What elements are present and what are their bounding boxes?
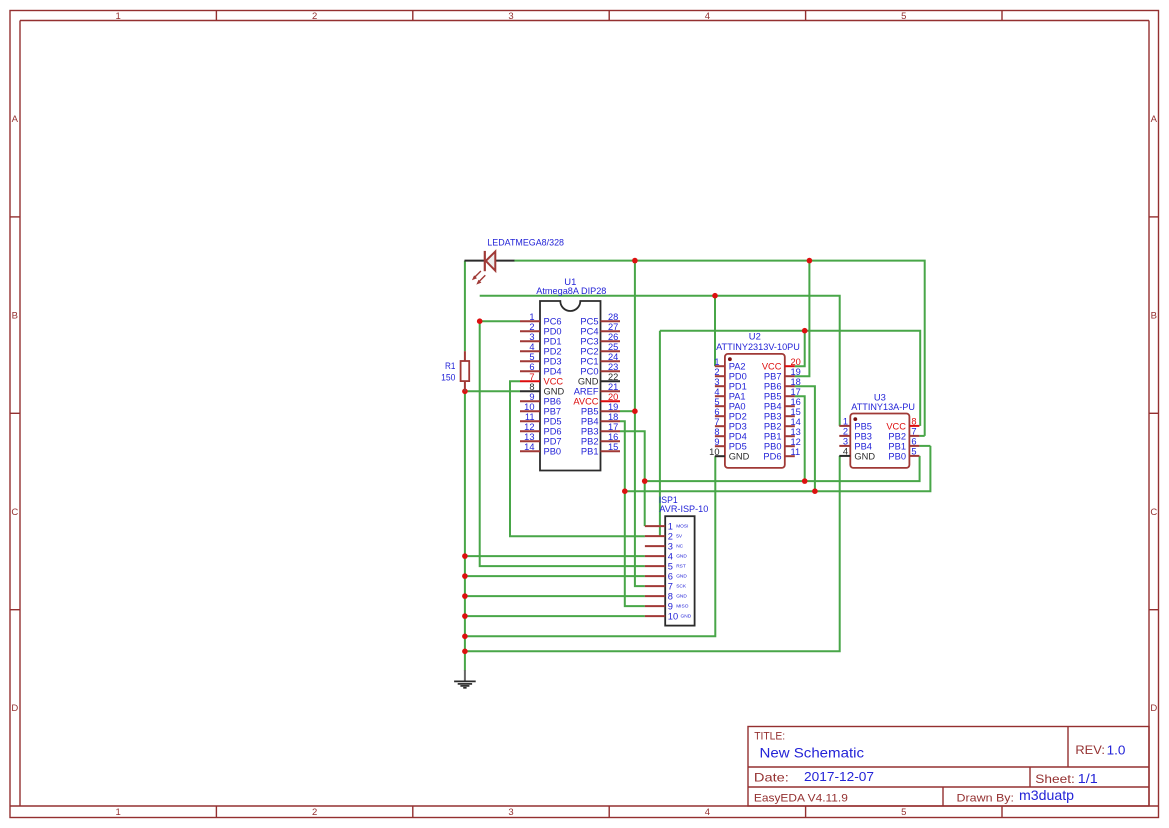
svg-text:TITLE:: TITLE: <box>754 730 785 742</box>
svg-text:A: A <box>1151 114 1158 125</box>
pin 12 (PB0) <box>764 437 801 452</box>
pin 19 (PB5) <box>581 402 620 417</box>
pin 15 (PB3) <box>764 407 801 422</box>
pin 9 (PD5) <box>714 437 746 452</box>
svg-text:PA2: PA2 <box>729 362 746 372</box>
junction <box>462 634 468 640</box>
svg-text:PC6: PC6 <box>544 317 562 327</box>
svg-text:12: 12 <box>524 422 534 432</box>
pin 8 (GND) <box>520 382 564 397</box>
svg-text:PD0: PD0 <box>729 372 747 382</box>
svg-text:GND: GND <box>676 593 687 599</box>
svg-text:8: 8 <box>529 382 534 392</box>
svg-text:PD3: PD3 <box>729 422 747 432</box>
svg-text:1: 1 <box>714 357 719 367</box>
svg-text:MISO: MISO <box>676 603 689 609</box>
svg-text:1: 1 <box>116 11 121 22</box>
wire U3 pin7 stub to top rail <box>919 435 924 437</box>
junction <box>462 553 468 559</box>
pin 4 (PA1) <box>714 387 745 402</box>
svg-text:PC4: PC4 <box>580 327 598 337</box>
svg-text:EasyEDA V4.11.9: EasyEDA V4.11.9 <box>754 792 848 804</box>
pin 4 (GND) <box>839 447 875 462</box>
pin 6 (PD2) <box>714 407 746 422</box>
svg-text:14: 14 <box>791 417 801 427</box>
svg-text:PD7: PD7 <box>544 437 562 447</box>
svg-text:U3: U3 <box>874 391 886 402</box>
svg-text:3: 3 <box>714 377 719 387</box>
svg-text:14: 14 <box>524 442 534 452</box>
svg-text:PB6: PB6 <box>544 397 562 407</box>
pin 8 (VCC) <box>886 417 919 432</box>
svg-text:ATTINY13A-PU: ATTINY13A-PU <box>851 402 915 413</box>
pin 13 (PD7) <box>520 432 562 447</box>
svg-text:PB7: PB7 <box>544 407 562 417</box>
wire RESET rail across to U3 pin1 <box>480 296 840 426</box>
wire SCK net: LED to U3 pin7 top rail <box>514 261 925 436</box>
svg-text:5: 5 <box>529 352 534 362</box>
svg-text:5V: 5V <box>676 533 683 539</box>
pin 1 (PB5) <box>839 417 872 432</box>
pin 21 (AREF) <box>574 382 620 397</box>
wire MOSI: U2 pin17 down to MOSI rail <box>795 396 805 481</box>
svg-text:16: 16 <box>608 432 618 442</box>
wire SCK branch: U2 pin19 up to top rail <box>795 261 810 377</box>
svg-text:5: 5 <box>901 807 906 818</box>
svg-text:PC3: PC3 <box>580 337 598 347</box>
svg-text:16: 16 <box>791 397 801 407</box>
svg-text:m3duatp: m3duatp <box>1019 788 1074 803</box>
junction <box>802 328 808 334</box>
svg-text:5: 5 <box>911 447 916 457</box>
svg-text:3: 3 <box>508 807 513 818</box>
svg-text:D: D <box>1150 703 1157 714</box>
pin 11 (PD5) <box>520 412 562 427</box>
svg-text:AVCC: AVCC <box>573 397 598 407</box>
svg-text:GND: GND <box>544 387 565 397</box>
IC U2 ATTINY2313V-10PU <box>716 331 800 468</box>
svg-text:AVR-ISP-10: AVR-ISP-10 <box>659 504 708 514</box>
pin 9 (PB6) <box>520 392 561 407</box>
svg-text:GND: GND <box>676 553 687 559</box>
junction <box>807 258 813 264</box>
svg-text:RST: RST <box>676 563 686 569</box>
op IC U1 Atmega8A DIP28 <box>536 276 606 471</box>
svg-text:ATTINY2313V-10PU: ATTINY2313V-10PU <box>716 342 800 353</box>
svg-text:2: 2 <box>668 531 673 541</box>
svg-text:8: 8 <box>911 417 916 427</box>
svg-text:3: 3 <box>668 541 673 551</box>
svg-text:VCC: VCC <box>886 421 906 431</box>
svg-text:5: 5 <box>714 397 719 407</box>
svg-text:7: 7 <box>911 427 916 437</box>
svg-text:PB1: PB1 <box>888 441 906 451</box>
svg-text:PD4: PD4 <box>729 432 747 442</box>
svg-text:6: 6 <box>668 571 673 581</box>
svg-text:PB5: PB5 <box>854 421 872 431</box>
svg-text:PB3: PB3 <box>854 431 872 441</box>
svg-text:PD6: PD6 <box>544 427 562 437</box>
pin 4 (GND) <box>645 551 687 561</box>
wire VCC: U2 pin20 up to VCC rail <box>795 331 805 367</box>
svg-text:B: B <box>12 310 18 321</box>
wire VCC: U1 pin7 down to ISP pin2 <box>510 381 645 536</box>
svg-text:MOSI: MOSI <box>676 523 688 529</box>
wire GND to ISP pin8 <box>465 595 645 597</box>
title block <box>748 727 1149 807</box>
junction <box>802 478 808 484</box>
pin 7 (PD3) <box>714 417 746 432</box>
svg-text:LEDATMEGA8/328: LEDATMEGA8/328 <box>487 238 564 248</box>
svg-text:20: 20 <box>791 357 801 367</box>
junction <box>642 478 648 484</box>
svg-text:20: 20 <box>608 392 618 402</box>
svg-text:10: 10 <box>524 402 534 412</box>
svg-text:PB7: PB7 <box>764 372 782 382</box>
wire MOSI rail to U3 pin5 <box>645 456 920 481</box>
svg-text:PB3: PB3 <box>581 427 599 437</box>
pin 6 (PB1) <box>888 437 919 452</box>
wire SCK branch: top rail down to U1 pin19 and ISP pin7 <box>635 261 645 586</box>
svg-text:2: 2 <box>312 807 317 818</box>
svg-text:27: 27 <box>608 322 618 332</box>
svg-text:17: 17 <box>608 422 618 432</box>
pin 11 (PD6) <box>763 447 800 462</box>
svg-text:9: 9 <box>668 601 673 611</box>
svg-text:PB5: PB5 <box>581 407 599 417</box>
svg-text:U2: U2 <box>749 331 761 342</box>
svg-text:8: 8 <box>714 427 719 437</box>
pin 1 (PA2) <box>714 357 745 372</box>
svg-text:22: 22 <box>608 372 618 382</box>
svg-text:4: 4 <box>843 447 848 457</box>
svg-text:12: 12 <box>791 437 801 447</box>
wire GND bus: R1 bottom to ground symbol <box>464 391 466 670</box>
svg-text:D: D <box>11 703 18 714</box>
pin 10 (PB7) <box>520 402 561 417</box>
svg-text:9: 9 <box>714 437 719 447</box>
pin 28 (PC5) <box>580 312 620 327</box>
pin 7 (VCC) <box>520 372 563 387</box>
svg-text:PD2: PD2 <box>544 347 562 357</box>
svg-text:PC0: PC0 <box>580 367 598 377</box>
svg-text:4: 4 <box>705 11 710 22</box>
junction <box>462 389 468 395</box>
junction <box>462 593 468 599</box>
svg-text:28: 28 <box>608 312 618 322</box>
svg-text:PD3: PD3 <box>544 357 562 367</box>
wire LED anode to R1 top <box>464 261 466 352</box>
pin 15 (PB1) <box>581 442 620 457</box>
wire MISO: U2 pin18 down to MISO rail <box>795 386 815 491</box>
wire GND: R1 bottom to U1 pin8 <box>465 390 520 392</box>
svg-text:VCC: VCC <box>544 377 564 387</box>
junction <box>477 318 483 324</box>
svg-text:PB2: PB2 <box>764 422 782 432</box>
svg-text:PB2: PB2 <box>888 431 906 441</box>
svg-text:1: 1 <box>668 521 673 531</box>
junction <box>712 293 718 299</box>
wire GND to ISP pin6 <box>465 575 645 577</box>
svg-text:15: 15 <box>791 407 801 417</box>
svg-text:PD4: PD4 <box>544 367 562 377</box>
svg-text:PB4: PB4 <box>581 417 599 427</box>
svg-text:GND: GND <box>729 452 750 462</box>
svg-text:PB3: PB3 <box>764 412 782 422</box>
pin 20 (VCC) <box>762 357 801 372</box>
resistor R1 150 <box>441 351 469 391</box>
svg-text:2017-12-07: 2017-12-07 <box>804 769 874 784</box>
pin 16 (PB4) <box>764 397 801 412</box>
svg-text:3: 3 <box>529 332 534 342</box>
svg-text:GND: GND <box>676 573 687 579</box>
pin 1 (MOSI) <box>645 521 689 531</box>
svg-text:PD1: PD1 <box>544 337 562 347</box>
LED LEDATMEGA8/328 <box>465 238 565 285</box>
wire GND to U2 pin10 <box>465 456 715 636</box>
svg-text:GND: GND <box>854 451 875 461</box>
svg-text:PB6: PB6 <box>764 382 782 392</box>
svg-text:5: 5 <box>668 561 673 571</box>
pin 3 (PB4) <box>839 437 872 452</box>
svg-text:Sheet:: Sheet: <box>1035 772 1075 786</box>
pin 5 (RST) <box>645 561 686 571</box>
junction <box>462 573 468 579</box>
svg-text:19: 19 <box>608 402 618 412</box>
svg-text:18: 18 <box>791 377 801 387</box>
svg-text:2: 2 <box>529 322 534 332</box>
junction <box>812 488 818 494</box>
svg-text:11: 11 <box>791 447 801 457</box>
svg-text:6: 6 <box>714 407 719 417</box>
svg-text:PB1: PB1 <box>581 447 599 457</box>
pin 16 (PB2) <box>581 432 620 447</box>
svg-text:4: 4 <box>668 551 673 561</box>
pin 14 (PB2) <box>764 417 801 432</box>
svg-text:2: 2 <box>843 427 848 437</box>
pin 17 (PB5) <box>764 387 801 402</box>
pin 8 (PD4) <box>714 427 746 442</box>
pin 6 (PD4) <box>520 362 562 377</box>
pin 6 (GND) <box>645 571 687 581</box>
pin 5 (PB0) <box>888 447 919 462</box>
svg-text:GND: GND <box>578 377 599 387</box>
svg-text:Atmega8A DIP28: Atmega8A DIP28 <box>536 285 606 296</box>
svg-text:5: 5 <box>901 11 906 22</box>
svg-text:AREF: AREF <box>574 387 599 397</box>
svg-text:R1: R1 <box>445 361 455 371</box>
svg-text:4: 4 <box>714 387 719 397</box>
svg-text:SCK: SCK <box>676 583 687 589</box>
pin 3 (NC) <box>645 541 684 551</box>
pin 4 (PD2) <box>520 342 562 357</box>
pin 3 (PD1) <box>714 377 746 392</box>
svg-text:26: 26 <box>608 332 618 342</box>
svg-text:PB0: PB0 <box>888 451 906 461</box>
pin 5 (PD3) <box>520 352 562 367</box>
pin 23 (PC0) <box>580 362 620 377</box>
svg-text:PB0: PB0 <box>764 442 782 452</box>
svg-text:PB1: PB1 <box>764 432 782 442</box>
svg-text:GND: GND <box>681 613 692 619</box>
svg-text:7: 7 <box>714 417 719 427</box>
svg-text:Date:: Date: <box>754 772 789 785</box>
svg-text:18: 18 <box>608 412 618 422</box>
junction <box>632 258 638 264</box>
pin 18 (PB6) <box>764 377 801 392</box>
pin 2 (PD0) <box>520 322 562 337</box>
pin 3 (PD1) <box>520 332 562 347</box>
pin 1 (PC6) <box>520 312 562 327</box>
pin 18 (PB4) <box>581 412 620 427</box>
svg-text:25: 25 <box>608 342 618 352</box>
pin 7 (PB2) <box>888 427 919 442</box>
wire MISO rail to U3 pin6 <box>625 446 931 491</box>
wire VCC rail down to ISP pin2 <box>659 331 661 537</box>
svg-text:REV:: REV: <box>1075 743 1105 757</box>
svg-text:23: 23 <box>608 362 618 372</box>
svg-text:6: 6 <box>911 437 916 447</box>
svg-text:1: 1 <box>529 312 534 322</box>
svg-text:C: C <box>1150 507 1157 518</box>
svg-text:3: 3 <box>508 11 513 22</box>
wire GND to U3 pin4 <box>465 456 840 651</box>
pin 22 (GND) <box>578 372 620 387</box>
pin 8 (GND) <box>645 591 687 601</box>
svg-text:1: 1 <box>843 417 848 427</box>
svg-text:11: 11 <box>525 412 535 422</box>
pin 19 (PB7) <box>764 367 801 382</box>
svg-text:3: 3 <box>843 437 848 447</box>
svg-text:Drawn By:: Drawn By: <box>957 792 1015 804</box>
svg-text:PD6: PD6 <box>763 452 781 462</box>
svg-text:PC5: PC5 <box>580 317 598 327</box>
svg-text:150: 150 <box>441 372 455 382</box>
pin 27 (PC4) <box>580 322 620 337</box>
pin 25 (PC2) <box>580 342 620 357</box>
connector ISP1 AVR-ISP-10 <box>659 495 708 625</box>
svg-text:15: 15 <box>608 442 618 452</box>
svg-text:PD5: PD5 <box>544 417 562 427</box>
pin 2 (5V) <box>645 531 683 541</box>
svg-text:C: C <box>11 507 18 518</box>
wire RESET branch down to U2 pin1 <box>714 296 716 367</box>
svg-text:1/1: 1/1 <box>1078 771 1098 786</box>
svg-text:24: 24 <box>608 352 618 362</box>
svg-text:7: 7 <box>668 581 673 591</box>
ground symbol <box>454 670 476 688</box>
svg-text:VCC: VCC <box>762 362 782 372</box>
pin 26 (PC3) <box>580 332 620 347</box>
svg-text:PC1: PC1 <box>580 357 598 367</box>
pin 10 (GND) <box>709 447 749 462</box>
svg-text:PB4: PB4 <box>854 441 872 451</box>
pin 10 (GND) <box>645 611 692 621</box>
svg-text:PB2: PB2 <box>581 437 599 447</box>
pin 2 (PD0) <box>714 367 746 382</box>
pin 20 (AVCC) <box>573 392 620 407</box>
svg-text:PA0: PA0 <box>729 402 746 412</box>
svg-text:10: 10 <box>668 611 678 621</box>
svg-text:4: 4 <box>705 807 710 818</box>
svg-text:9: 9 <box>529 392 534 402</box>
pin 14 (PB0) <box>520 442 561 457</box>
pin 13 (PB1) <box>764 427 801 442</box>
wire SCK stub to U1 pin19 <box>620 410 635 412</box>
svg-text:1.0: 1.0 <box>1107 743 1126 758</box>
svg-text:21: 21 <box>608 382 618 392</box>
svg-text:10: 10 <box>709 447 719 457</box>
wire GND to ISP pin10 <box>465 615 645 617</box>
svg-text:PA1: PA1 <box>729 392 746 402</box>
svg-text:PB5: PB5 <box>764 392 782 402</box>
svg-text:PD5: PD5 <box>729 442 747 452</box>
svg-text:4: 4 <box>529 342 534 352</box>
svg-text:PD1: PD1 <box>729 382 747 392</box>
svg-text:PB4: PB4 <box>764 402 782 412</box>
junction <box>462 613 468 619</box>
svg-text:2: 2 <box>312 11 317 22</box>
wire RESET: U1 pin1 net <box>480 321 645 566</box>
wire VCC rail to U3 pin8 <box>660 331 920 426</box>
svg-text:19: 19 <box>791 367 801 377</box>
svg-text:17: 17 <box>791 387 801 397</box>
svg-text:PC2: PC2 <box>580 347 598 357</box>
pin 7 (SCK) <box>645 581 687 591</box>
svg-text:13: 13 <box>524 432 534 442</box>
svg-text:13: 13 <box>791 427 801 437</box>
pin 2 (PB3) <box>839 427 872 442</box>
svg-text:NC: NC <box>676 543 683 549</box>
IC U3 ATTINY13A-PU <box>850 391 915 468</box>
junction <box>462 649 468 655</box>
svg-text:A: A <box>12 114 19 125</box>
svg-text:New Schematic: New Schematic <box>760 745 865 761</box>
svg-text:PD2: PD2 <box>729 412 747 422</box>
junction <box>632 408 638 414</box>
svg-text:PD0: PD0 <box>544 327 562 337</box>
svg-text:8: 8 <box>668 591 673 601</box>
wire MISO short stub at U3 pin6 <box>919 445 930 447</box>
svg-text:7: 7 <box>529 372 534 382</box>
svg-text:1: 1 <box>116 807 121 818</box>
svg-text:2: 2 <box>714 367 719 377</box>
svg-text:PB0: PB0 <box>544 447 562 457</box>
pin 24 (PC1) <box>580 352 620 367</box>
svg-text:6: 6 <box>529 362 534 372</box>
pin 9 (MISO) <box>645 601 689 611</box>
pin 5 (PA0) <box>714 397 745 412</box>
junction <box>622 488 628 494</box>
pin 17 (PB3) <box>581 422 620 437</box>
wire GND to ISP pin4 <box>465 555 645 557</box>
wire MISO: U1 pin18 down to ISP pin9 <box>620 421 645 606</box>
svg-text:B: B <box>1151 310 1157 321</box>
wire MOSI: U1 pin17 down to ISP pin1 <box>620 431 645 526</box>
pin 12 (PD6) <box>520 422 562 437</box>
